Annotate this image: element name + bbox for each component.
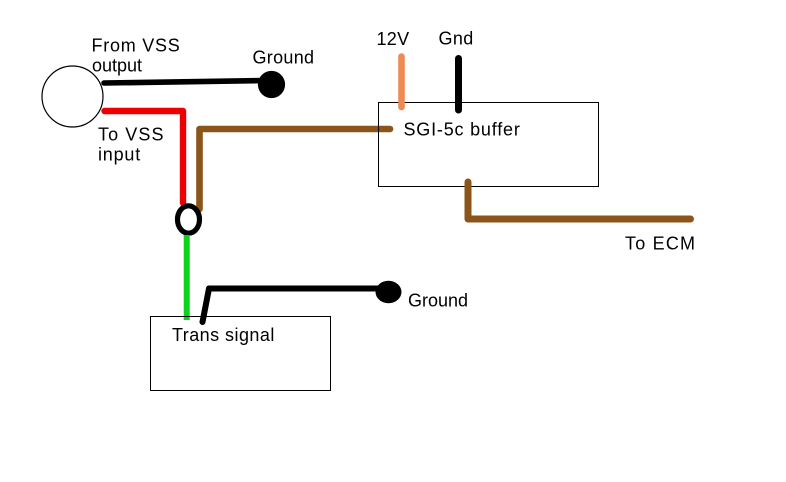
ground dot (top) [258, 71, 285, 98]
wire black from trans box to ground dot [203, 289, 386, 323]
junction ellipse node [178, 206, 200, 233]
svg-text:To ECM: To ECM [625, 234, 696, 254]
label To VSS input [98, 125, 165, 165]
wire black from circle to ground dot [104, 81, 268, 84]
wire brown from junction to buffer [200, 129, 391, 209]
svg-text:From VSS: From VSS [92, 36, 181, 56]
svg-text:input: input [98, 145, 141, 165]
wire orange 12V supply [398, 57, 405, 108]
svg-text:Gnd: Gnd [439, 28, 474, 48]
VSS sensor circle [42, 66, 103, 127]
wire green to trans signal [184, 235, 190, 320]
svg-text:To VSS: To VSS [98, 125, 165, 145]
label From VSS output [92, 36, 181, 76]
wire brown to ECM [468, 182, 691, 219]
svg-text:output: output [92, 56, 142, 76]
wire red to VSS input [105, 111, 184, 203]
svg-text:SGI-5c buffer: SGI-5c buffer [404, 120, 521, 140]
SGI-5c buffer box U1 [379, 103, 599, 187]
svg-text:Trans signal: Trans signal [172, 325, 275, 345]
svg-text:12V: 12V [377, 29, 410, 49]
wire black Gnd [455, 59, 462, 111]
Trans signal box [151, 317, 331, 391]
ground dot (bottom) [376, 281, 402, 303]
svg-text:Ground: Ground [253, 47, 315, 67]
svg-text:Ground: Ground [408, 291, 468, 311]
